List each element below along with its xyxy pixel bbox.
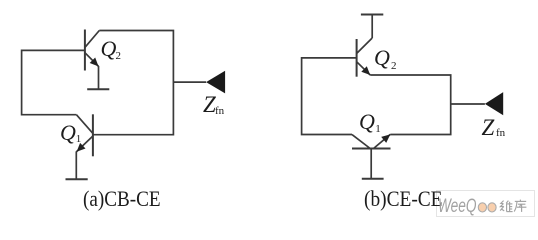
watermark peach o1	[478, 203, 486, 212]
label Q1 (circuit a)	[60, 122, 76, 144]
label Zfn (circuit b)	[482, 116, 495, 139]
transistor Q1 (circuit a) collector lead	[76, 115, 93, 134]
wire: Q2b base wire, left rail and bottom left wire of circuit (b)	[302, 58, 357, 135]
transistor Q2 (circuit b) collector lead	[357, 38, 373, 54]
transistor Q2 (circuit a) base bar	[84, 30, 86, 71]
transistor Q2 (circuit a) collector lead	[85, 31, 99, 48]
output triangle Zfn (circuit a)	[206, 71, 225, 94]
watermark peach o2	[488, 203, 496, 212]
terminal bar below Q1b base	[362, 178, 384, 180]
label Q2 (circuit a)	[101, 38, 117, 60]
wire: top wire of (a), right rail, Q1a base wire	[93, 31, 173, 135]
watermark text WeeQ	[438, 197, 477, 216]
transistor Q2 (circuit b) emitter arrowhead	[361, 66, 370, 75]
caption (b)CE-CE	[364, 188, 442, 210]
transistor Q2 (circuit b) emitter lead	[357, 62, 371, 75]
transistor Q1 (circuit b) base bar (horizontal)	[352, 148, 391, 150]
caption (a)CB-CE	[83, 188, 161, 210]
wire: Q1b base down lead	[370, 149, 372, 179]
transistor Q1 (circuit b) collector lead	[352, 135, 370, 149]
wire: Q2a emitter down lead	[98, 66, 100, 89]
watermark box (behind all)	[436, 190, 535, 217]
label Zfn (circuit a)	[203, 93, 216, 116]
wire: Zfn stub of circuit (b)	[451, 103, 485, 105]
transistor Q2 (circuit a) emitter arrowhead	[90, 58, 99, 67]
label Q1 (circuit b)	[359, 111, 375, 133]
wire: top lead down from terminal (b)	[371, 15, 373, 39]
wire: Q2a base wire, left rail and bottom wire of circuit (a)	[22, 50, 85, 114]
power terminal bar at top of circuit (b)	[361, 14, 383, 16]
transistor Q1 (circuit a) emitter lead	[76, 136, 93, 152]
transistor Q1 (circuit a) base bar	[92, 114, 94, 156]
transistor Q2 (circuit a) emitter lead	[85, 53, 99, 67]
wire: Q1a emitter down lead	[75, 152, 77, 180]
output triangle Zfn (circuit b)	[485, 92, 503, 115]
wire: Zfn stub of circuit (a)	[173, 81, 206, 83]
terminal bar below Q1a emitter	[66, 178, 88, 180]
transistor Q1 (circuit a) emitter arrowhead	[77, 143, 86, 152]
wire: Q2b emitter wire, right rail, bottom right wire of circuit (b)	[370, 75, 451, 135]
transistor Q1 (circuit b) emitter lead	[374, 134, 391, 148]
transistor Q2 (circuit b) base bar	[356, 39, 358, 77]
label Q2 (circuit b)	[374, 47, 390, 69]
transistor Q1 (circuit b) emitter arrowhead	[381, 134, 390, 143]
terminal bar below Q2a emitter	[87, 88, 109, 90]
